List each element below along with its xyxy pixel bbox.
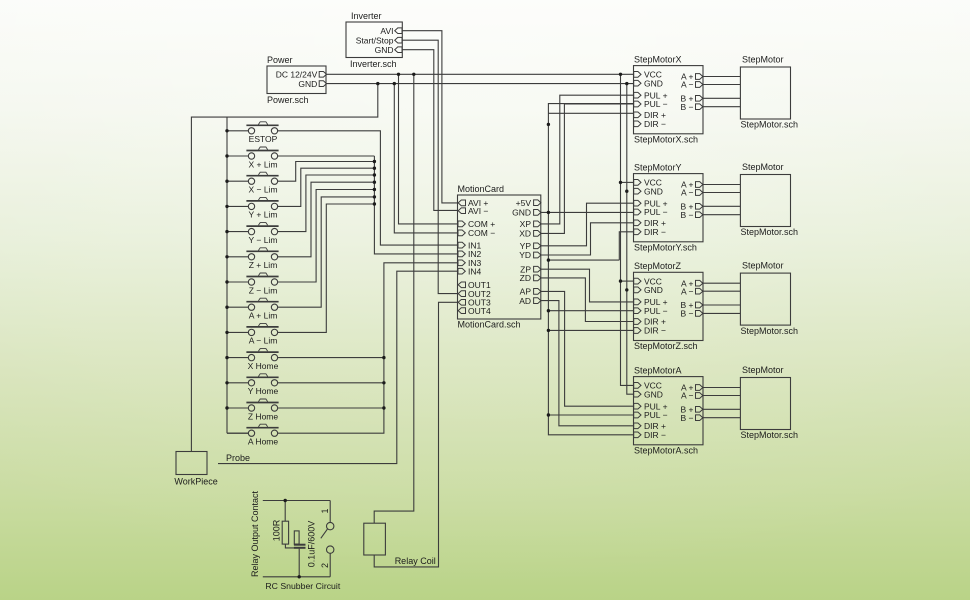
svg-text:1: 1 (320, 508, 330, 513)
svg-text:AVI: AVI (380, 26, 393, 36)
svg-text:StepMotorY: StepMotorY (634, 162, 682, 172)
svg-text:GND: GND (298, 79, 317, 89)
svg-text:OUT4: OUT4 (468, 306, 491, 316)
svg-text:B −: B − (681, 102, 694, 112)
svg-text:DIR −: DIR − (644, 430, 666, 440)
svg-text:StepMotor: StepMotor (742, 55, 784, 65)
svg-text:GND: GND (644, 186, 663, 196)
svg-text:GND: GND (644, 78, 663, 88)
svg-text:PUL −: PUL − (644, 410, 668, 420)
svg-text:StepMotorZ: StepMotorZ (634, 261, 682, 271)
svg-text:WorkPiece: WorkPiece (174, 477, 217, 487)
svg-text:StepMotor.sch: StepMotor.sch (741, 120, 799, 130)
svg-text:StepMotorX: StepMotorX (634, 54, 682, 64)
svg-text:StepMotorA: StepMotorA (634, 365, 682, 375)
svg-text:StepMotorX.sch: StepMotorX.sch (634, 135, 698, 145)
svg-text:DIR −: DIR − (644, 119, 666, 129)
svg-text:X + Lim: X + Lim (248, 159, 277, 169)
svg-text:StepMotor: StepMotor (742, 261, 784, 271)
svg-text:B −: B − (681, 413, 694, 423)
svg-text:A −: A − (681, 391, 694, 401)
svg-text:Z Home: Z Home (248, 411, 279, 421)
svg-text:Z − Lim: Z − Lim (249, 285, 278, 295)
svg-text:2: 2 (320, 563, 330, 568)
svg-text:B −: B − (681, 210, 694, 220)
svg-text:Start/Stop: Start/Stop (356, 35, 394, 45)
svg-text:IN4: IN4 (468, 266, 482, 276)
svg-text:A −: A − (681, 286, 694, 296)
svg-text:XP: XP (520, 219, 532, 229)
svg-text:A −: A − (681, 80, 694, 90)
svg-text:DIR −: DIR − (644, 326, 666, 336)
svg-text:A −: A − (681, 188, 694, 198)
svg-text:PUL −: PUL − (644, 306, 668, 316)
svg-text:DIR −: DIR − (644, 227, 666, 237)
svg-text:Relay Output Contact: Relay Output Contact (250, 490, 260, 577)
svg-text:Power: Power (267, 55, 293, 65)
svg-text:ESTOP: ESTOP (249, 134, 278, 144)
svg-text:+5V: +5V (516, 198, 532, 208)
svg-text:StepMotorZ.sch: StepMotorZ.sch (634, 341, 698, 351)
svg-text:X − Lim: X − Lim (248, 185, 277, 195)
svg-text:StepMotor.sch: StepMotor.sch (741, 430, 799, 440)
svg-text:Y − Lim: Y − Lim (249, 235, 278, 245)
svg-text:Inverter.sch: Inverter.sch (350, 59, 397, 69)
svg-text:Relay Coil: Relay Coil (395, 556, 436, 566)
svg-text:GND: GND (375, 45, 394, 55)
svg-text:Z + Lim: Z + Lim (249, 260, 278, 270)
svg-text:GND: GND (644, 389, 663, 399)
svg-text:B −: B − (681, 309, 694, 319)
svg-text:StepMotor: StepMotor (742, 365, 784, 375)
svg-text:GND: GND (644, 285, 663, 295)
svg-text:A + Lim: A + Lim (249, 311, 278, 321)
svg-text:Power.sch: Power.sch (267, 95, 309, 105)
svg-text:StepMotorA.sch: StepMotorA.sch (634, 446, 698, 456)
svg-text:COM −: COM − (468, 228, 495, 238)
svg-text:StepMotor: StepMotor (742, 162, 784, 172)
svg-text:GND: GND (512, 208, 531, 218)
svg-text:PUL −: PUL − (644, 207, 668, 217)
svg-text:100R: 100R (272, 519, 282, 541)
svg-text:StepMotor.sch: StepMotor.sch (741, 227, 799, 237)
svg-text:StepMotor.sch: StepMotor.sch (741, 326, 799, 336)
svg-text:PUL −: PUL − (644, 99, 668, 109)
svg-text:Y Home: Y Home (248, 386, 279, 396)
svg-text:StepMotorY.sch: StepMotorY.sch (634, 243, 697, 253)
svg-text:Probe: Probe (226, 453, 250, 463)
svg-text:XD: XD (519, 229, 531, 239)
svg-text:YD: YD (519, 250, 531, 260)
svg-text:Inverter: Inverter (351, 11, 382, 21)
svg-text:A Home: A Home (248, 437, 279, 447)
svg-text:RC Snubber Circuit: RC Snubber Circuit (265, 581, 340, 591)
svg-text:X Home: X Home (248, 361, 279, 371)
svg-text:AVI −: AVI − (468, 206, 488, 216)
svg-text:MotionCard: MotionCard (458, 184, 505, 194)
svg-text:MotionCard.sch: MotionCard.sch (458, 320, 521, 330)
svg-text:A − Lim: A − Lim (249, 336, 278, 346)
svg-text:AD: AD (519, 296, 531, 306)
svg-text:Y + Lim: Y + Lim (249, 210, 278, 220)
svg-text:0.1uF/600V: 0.1uF/600V (307, 521, 317, 568)
svg-text:ZD: ZD (520, 273, 531, 283)
